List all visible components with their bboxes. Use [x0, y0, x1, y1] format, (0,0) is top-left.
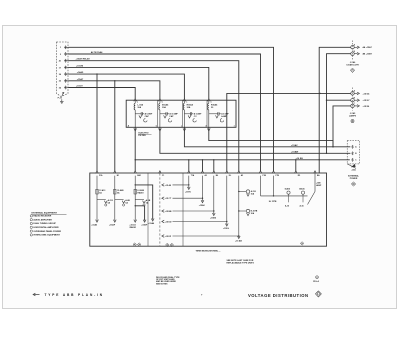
bus feeder A3 [238, 176, 240, 238]
bus entry arrow R5 [294, 171, 297, 174]
junction [135, 184, 136, 185]
filter section divider [182, 100, 184, 127]
bus entry arrow F7B [272, 171, 275, 174]
branch +15DF of MA1 [135, 206, 144, 221]
svg-text:FIG.4: FIG.4 [313, 280, 319, 283]
bus feeder at x=135.2 [134, 176, 136, 221]
svg-text:30A: 30A [187, 106, 191, 109]
J-5A pin C [351, 158, 354, 161]
legend item 6 [30, 234, 32, 236]
svg-text:+15DF: +15DF [141, 225, 148, 227]
svg-text:4B +15B7: 4B +15B7 [363, 53, 373, 56]
svg-text:TERM BUSN (SHOWN) —: TERM BUSN (SHOWN) — [196, 250, 222, 252]
junction [213, 159, 214, 160]
wire +15A7 (pin36 to filter L3) [69, 74, 185, 99]
svg-text:AUDIO AMPLIFIER: AUDIO AMPLIFIER [33, 218, 52, 221]
svg-text:SL 15TB: SL 15TB [269, 201, 277, 203]
title diamond symbol [316, 291, 322, 297]
inductor L4 [208, 100, 210, 103]
wire L1 out to bus [134, 127, 136, 171]
J-7A5 pin A [351, 92, 354, 95]
svg-text:ALTN 15A4: ALTN 15A4 [91, 51, 103, 54]
connector P31 body [57, 42, 69, 97]
branch +15CV to bus [114, 81, 116, 171]
bus wire through box [159, 173, 161, 246]
svg-text:+15A2: +15A2 [199, 204, 206, 207]
svg-text:RADIO: RADIO [130, 226, 137, 229]
J-7A6 pin B [351, 52, 354, 55]
terminal symbol [300, 242, 303, 245]
bus entry arrow B1 [113, 171, 116, 174]
capacitor C3 [184, 113, 190, 115]
svg-text:OVERHEAD PANEL POWER: OVERHEAD PANEL POWER [33, 230, 61, 233]
J-7A6 pin A [351, 46, 354, 49]
inductor L3 [183, 100, 185, 103]
legend item 5 [30, 230, 32, 232]
legend item 1 [30, 215, 32, 217]
junction [326, 153, 327, 154]
bus divider 2 [182, 173, 184, 246]
legend item 3 [30, 222, 32, 224]
bus entry arrow F1A [96, 171, 99, 174]
svg-text:MA1: MA1 [137, 174, 141, 177]
svg-text:CAP: CAP [169, 115, 174, 118]
bus entry arrow A2 [201, 171, 204, 174]
filter entry arrow 4 [207, 99, 210, 102]
lamp breaker A-15 [287, 191, 290, 194]
svg-text:B1: B1 [117, 175, 119, 177]
svg-text:+15AF: +15AF [109, 224, 116, 227]
junction [326, 100, 327, 101]
bus entry arrow B6 [212, 171, 215, 174]
svg-text:+15 DD: +15 DD [165, 221, 172, 223]
branch +15A6 of MA1 [135, 185, 153, 220]
switch blade [308, 192, 316, 205]
wire L2 out (+15AW) to ext power pin B [160, 127, 351, 153]
svg-text:LAMPS: LAMPS [349, 114, 357, 117]
svg-text:+15AW: +15AW [291, 150, 299, 153]
svg-text:VOLTAGE DISTRIBUTION: VOLTAGE DISTRIBUTION [248, 293, 309, 298]
svg-text:+15 A9: +15 A9 [165, 184, 172, 187]
svg-text:+15 BB: +15 BB [165, 211, 172, 213]
bus entry arrow MA1 [134, 171, 137, 174]
svg-text:C1: C1 [162, 175, 164, 177]
junction [332, 146, 333, 147]
junction [135, 205, 136, 206]
ground at P31 [61, 99, 63, 101]
bus entry arrow A3 [237, 171, 240, 174]
svg-text:+16 EH: +16 EH [296, 158, 304, 160]
svg-text:+15 EF: +15 EF [165, 236, 172, 238]
svg-text:A3: A3 [241, 174, 243, 177]
wire L3 out (+15AV) to ext power pin A [184, 127, 350, 147]
connector J-7A5 body [352, 88, 354, 111]
bus divider 1 [147, 173, 149, 246]
filter section divider [156, 100, 158, 127]
wire +15AY RELAY (pin3 to bus entry) [69, 54, 261, 171]
svg-text:FILTER: FILTER [139, 135, 147, 137]
filter exit arrow 3 [183, 128, 186, 131]
svg-text:4A +15A7: 4A +15A7 [363, 46, 373, 49]
junction [202, 159, 203, 160]
wire L4 out to ext power line [209, 127, 333, 147]
bus entry arrow BA [314, 171, 317, 174]
wire SL 15TB [261, 195, 308, 197]
connector J-5A body [347, 141, 359, 164]
connector J-7A6 body [352, 41, 354, 60]
svg-text:a: a [211, 102, 212, 104]
bus drop from +16 EH line [188, 160, 190, 171]
wire bus tap (+16 EH) to ext power pin C [135, 159, 350, 161]
wire +ALTN 15A4 (pin1 to bus entry) [69, 47, 274, 171]
svg-text:a: a [186, 102, 187, 104]
capacitor C4 [209, 113, 218, 115]
filter entry arrow 1 [134, 99, 137, 102]
svg-text:30A: 30A [137, 106, 141, 109]
svg-text:e: e [234, 126, 235, 128]
svg-text:+15 KY: +15 KY [363, 100, 371, 102]
wire +14A5 (pin17 to filter L4) [69, 67, 209, 99]
svg-text:B6: B6 [216, 175, 218, 177]
feed wire to J-7A6 pin B [327, 54, 351, 154]
svg-text:15A15: 15A15 [285, 188, 291, 191]
feed wire to J-7A6 pin A [319, 47, 351, 173]
svg-text:+15DL: +15DL [223, 228, 230, 230]
svg-text:+15 AB: +15 AB [235, 239, 242, 242]
P31 lead line [62, 93, 63, 96]
bus column to +15T6 [188, 176, 190, 189]
svg-text:+15A3: +15A3 [91, 224, 98, 227]
legend item 4 [30, 226, 32, 228]
svg-text:A2: A2 [205, 174, 207, 177]
bus feeder at x=97 [96, 176, 98, 221]
fig marker [316, 276, 319, 279]
inductor L2 [159, 100, 161, 103]
terminal symbol [170, 243, 173, 246]
wire F1B down [260, 176, 262, 196]
wire +15CM (pin41 to bus entry) [69, 61, 239, 172]
svg-text:CAP: CAP [145, 115, 150, 118]
filter exit arrow 1 [134, 128, 137, 131]
bus tap row +15 CT [162, 197, 164, 200]
svg-text:a: a [162, 102, 163, 104]
svg-text:POWER: POWER [350, 178, 358, 180]
bus column to +15A2 [202, 176, 204, 202]
J-7A5 pin B [351, 99, 354, 102]
svg-text:15A16: 15A16 [299, 188, 305, 191]
bus entry arrow F1B [259, 171, 262, 174]
svg-text:EXTERNAL EQUIPMENT: EXTERNAL EQUIPMENT [32, 212, 58, 215]
svg-text:+15B6: +15B6 [210, 218, 217, 220]
junction [226, 146, 227, 147]
junction [295, 159, 296, 160]
ground at J-5A [351, 182, 355, 186]
J-5A slant lead [347, 164, 356, 169]
bus tap row +15 DD [162, 220, 164, 223]
lamp breaker A-16 [301, 191, 304, 194]
svg-text:+15AV: +15AV [291, 144, 298, 147]
bus entry arrow T1A [187, 171, 190, 174]
svg-text:REPLACEABLE TYPE UNITS: REPLACEABLE TYPE UNITS [227, 262, 255, 265]
feed wire to J-7A5 pin B [327, 99, 351, 101]
svg-text:SEE NOTES: SEE NOTES [156, 283, 168, 285]
svg-text:R5: R5 [298, 175, 300, 177]
svg-text:CIGAR LGTR: CIGAR LGTR [346, 64, 359, 67]
filter exit arrow 4 [207, 128, 210, 131]
svg-text:RADIO RECEIVER: RADIO RECEIVER [33, 215, 51, 218]
terminal symbol [138, 243, 141, 246]
bus drop from +16 EH line [213, 160, 215, 171]
bus tap row +15 BB [162, 210, 164, 213]
filter entry arrow 2 [159, 99, 162, 102]
junction [135, 159, 136, 160]
svg-text:DUAL TUNING GROUP: DUAL TUNING GROUP [33, 222, 56, 225]
junction [319, 159, 320, 160]
feed wire to J-7A5 pin A [227, 93, 351, 171]
junction [188, 159, 189, 160]
wire +15L24 (pin36 to filter L1) [69, 88, 136, 100]
bus box [90, 173, 327, 246]
ground at J-7A5 [351, 120, 354, 123]
svg-text:+15T6: +15T6 [185, 192, 192, 194]
junction [114, 80, 115, 81]
svg-text:A-16: A-16 [300, 204, 304, 207]
svg-text:+15 E6: +15 E6 [363, 106, 370, 108]
legend item 2 [30, 219, 32, 221]
svg-text:INTERCOMM. EQUIPMENT: INTERCOMM. EQUIPMENT [33, 235, 60, 237]
svg-text:30A: 30A [162, 106, 166, 109]
feed wire to J-7A5 pin C [333, 106, 351, 147]
inductor L1 [134, 100, 136, 103]
capacitor C1 [135, 113, 141, 115]
wire F7B down [273, 176, 275, 196]
branch +15A7 to bus [96, 74, 98, 171]
svg-text:+15A6: +15A6 [148, 222, 155, 225]
filter exit arrow 2 [159, 128, 162, 131]
wire +15 BA [314, 173, 316, 191]
filter section divider [206, 100, 208, 127]
svg-text:SEE NOTE LAST CASE FOR: SEE NOTE LAST CASE FOR [227, 259, 254, 262]
svg-text:LAMP: LAMP [316, 184, 322, 187]
J-7A5 pin C [351, 104, 354, 107]
CB branch B-15TB [239, 210, 246, 212]
J-5A pin A [351, 145, 354, 148]
svg-text:+14A5: +14A5 [77, 71, 84, 74]
svg-text:A-15: A-15 [285, 204, 289, 207]
junction [319, 93, 320, 94]
ground at J-7A6 [350, 68, 354, 72]
terminal symbol [133, 243, 136, 246]
terminal symbol [166, 243, 169, 246]
svg-text:c: c [181, 126, 182, 128]
capacitor C2 [160, 113, 166, 115]
wire +15CV (pin23 to filter L2) [69, 81, 160, 99]
J-5A pin B [351, 152, 354, 155]
svg-text:TYPE ABB PLAN-IN: TYPE ABB PLAN-IN [45, 293, 104, 297]
bus feeder at x=114.8 [114, 176, 116, 221]
bus tap row +15 EF [162, 235, 164, 238]
bus drop from +16 EH line [202, 160, 204, 171]
junction [96, 73, 97, 74]
junction [332, 146, 333, 147]
svg-text:+15AY RELAY: +15AY RELAY [76, 58, 91, 61]
svg-text:+15 D4: +15 D4 [363, 92, 371, 95]
bus entry arrow C1 [159, 171, 162, 174]
bus tap row +15 A9 [162, 184, 164, 187]
filter entry arrow 3 [183, 99, 186, 102]
bus column to +15B6 [213, 176, 215, 215]
svg-text:RADIO: RADIO [138, 192, 145, 195]
CB branch A-210 [239, 191, 246, 193]
svg-text:a: a [137, 102, 138, 104]
svg-text:J-5A: J-5A [351, 169, 356, 172]
title arrow [34, 294, 40, 296]
filter box [126, 100, 236, 127]
bus column to +15DL [226, 176, 228, 225]
svg-text:HORIZONTAL AMPLIFIER: HORIZONTAL AMPLIFIER [33, 226, 59, 229]
bus entry arrow DL [225, 171, 228, 174]
svg-text:+15 CT: +15 CT [165, 198, 172, 200]
bus drop from +16 EH line [295, 160, 297, 171]
